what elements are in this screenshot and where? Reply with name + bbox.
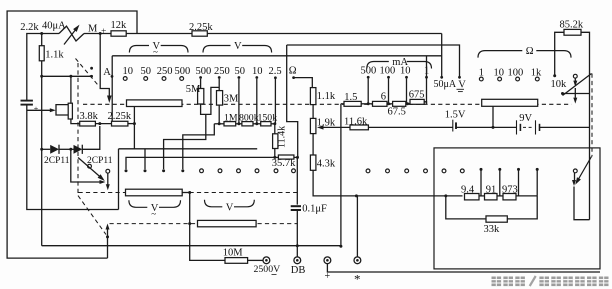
svg-text:2.5: 2.5 [269, 66, 282, 77]
wire V-divider node down to 10M [190, 193, 225, 261]
wiper diagonal [563, 74, 592, 96]
shunt chain wire [341, 103, 344, 105]
terminals ohm ranges (open circles) [479, 77, 483, 81]
node ohm-range tap [492, 126, 495, 129]
resistor R 2.25k (top) [192, 31, 207, 36]
wire 675 to riser [424, 102, 426, 104]
wire 11.4k to 35.7k bus [274, 149, 276, 158]
svg-text:91: 91 [486, 184, 497, 195]
terminal * (common) [354, 257, 361, 264]
wire diode row [59, 148, 74, 150]
svg-text:3.8k: 3.8k [80, 111, 99, 122]
svg-text:500: 500 [361, 66, 377, 77]
contact A on DC bus [111, 75, 114, 78]
svg-text:2CP11: 2CP11 [44, 156, 70, 166]
potentiometer ohm ranges (long box) [482, 99, 538, 106]
contact Omega [292, 76, 295, 79]
capacitor C 0.1uF [296, 157, 298, 204]
switch wiper (dashed) near A [76, 59, 98, 85]
wire top loop [7, 11, 137, 258]
wire rheostat to rectifier row [71, 119, 80, 124]
svg-text:800k: 800k [239, 112, 259, 123]
svg-text:~: ~ [153, 47, 158, 57]
svg-text:10: 10 [123, 66, 134, 77]
wiper assembly top-right: contact circle [573, 74, 577, 78]
svg-text:1.1k: 1.1k [317, 91, 336, 102]
svg-text:*: * [354, 272, 361, 287]
svg-text:9V: 9V [519, 113, 532, 124]
svg-text:1.5V: 1.5V [445, 109, 466, 120]
svg-text:33k: 33k [484, 224, 501, 235]
resistor R 85.2k [564, 29, 581, 35]
resistor R 800k [242, 122, 253, 126]
rotary switch wafer line S1 (dashed, upper) [83, 103, 572, 105]
wire + node 10 [406, 103, 410, 105]
svg-text:50: 50 [141, 66, 152, 77]
svg-text:100: 100 [380, 66, 396, 77]
svg-text:5M: 5M [186, 84, 201, 95]
resistor R 3M [218, 79, 220, 91]
wire D2 to rectifier node [82, 126, 100, 149]
wiper stub arrows [574, 78, 576, 81]
svg-text:11.6k: 11.6k [344, 116, 368, 127]
resistor R 1M [214, 123, 224, 125]
potentiometer V~ divider (long box) [126, 189, 183, 196]
svg-text:10M: 10M [223, 247, 244, 258]
wire common rail y246 [42, 245, 341, 247]
svg-text:50: 50 [235, 66, 246, 77]
resistor R 5M [200, 79, 202, 89]
wire to node [182, 192, 190, 194]
wire to switch contact row [42, 75, 92, 77]
wire DC bus rail [112, 55, 442, 57]
node junction [69, 75, 72, 78]
svg-text:+: + [34, 105, 39, 114]
svg-text:1.5: 1.5 [344, 92, 357, 103]
svg-text:10k: 10k [551, 79, 568, 90]
brace V~ range [129, 46, 149, 53]
resistor R 2.25k (rectifier) [112, 121, 128, 126]
potentiometer R 1.9k [310, 118, 316, 133]
svg-text:+: + [325, 271, 331, 282]
wire [128, 123, 134, 125]
resistor R 3.8k [80, 121, 96, 126]
resistor R 1.1k (meter shunt) [41, 34, 43, 46]
brace Omega ranges [478, 51, 522, 58]
svg-text:0.1μF: 0.1μF [302, 203, 327, 214]
wire shunt left end down to common [340, 104, 342, 247]
svg-text:973: 973 [502, 184, 518, 195]
wire 33k loop [446, 196, 486, 219]
svg-text:100: 100 [508, 68, 524, 79]
wire A branch from M node [100, 34, 109, 98]
svg-text:85.2k: 85.2k [560, 19, 584, 30]
svg-text:67.5: 67.5 [388, 107, 406, 118]
svg-text:12k: 12k [111, 20, 128, 31]
switch S2 wiper [78, 158, 103, 180]
contact row (lower wafer) open circles [200, 169, 204, 173]
svg-text:Ω: Ω [289, 66, 297, 77]
svg-text:9.4: 9.4 [461, 184, 475, 195]
wire stems to resistor row [480, 169, 482, 196]
svg-text:V: V [234, 41, 242, 52]
potentiometer V divider (long box) [198, 220, 257, 226]
wire 1.1k lower / left branch down [41, 61, 43, 246]
wiper pivot wire [563, 93, 590, 95]
wire ohm bus from DC-bus rail corner [287, 45, 298, 157]
wire [456, 126, 517, 128]
brace V~ (bottom) [129, 200, 147, 207]
svg-text:11.4k: 11.4k [277, 126, 288, 148]
wire [95, 123, 111, 125]
resistor R 150k [261, 122, 271, 126]
svg-text:V: V [226, 202, 234, 213]
wire left drop to V~ block [118, 149, 120, 210]
svg-text:500: 500 [196, 66, 212, 77]
wire contact stem to S2 line [107, 173, 109, 185]
wire battery rail [341, 126, 453, 128]
brace V (bottom) [205, 200, 223, 207]
svg-text:6: 6 [381, 92, 386, 103]
wire ohm-range tap stem [492, 106, 494, 127]
wire [312, 134, 314, 155]
svg-text:2500V: 2500V [254, 264, 281, 275]
rotary switch wafer line S2 (dashed, V~ row) [79, 192, 298, 194]
wire contact1 stem and y157 bus [126, 157, 275, 169]
rotary linkage (dashed vertical left) [77, 63, 79, 196]
svg-text:3M: 3M [224, 93, 239, 104]
rotary linkage (dashed diagonal to common node) [78, 196, 106, 235]
watermark [492, 277, 502, 287]
wire 10k riser [555, 32, 564, 75]
node star-terminal stem [355, 194, 358, 197]
switch S2 contacts (bottom-left) [88, 164, 92, 168]
wire battery to right riser [540, 126, 590, 128]
rotary switch wafer line S3 (dashed, V row) [110, 223, 298, 225]
resistor R 4.3k [310, 155, 316, 170]
contact 50uA [440, 76, 443, 79]
meter M (moving-coil galvanometer) [59, 26, 84, 41]
svg-text:1.1k: 1.1k [45, 49, 64, 60]
contact V (DC common) [458, 76, 461, 79]
box bottom-right section [434, 148, 600, 269]
wire 85.2k to right rail [581, 32, 590, 219]
svg-text:Ω: Ω [526, 46, 534, 57]
resistor R 11.6k [350, 125, 368, 130]
terminal + [324, 257, 331, 264]
wire 50uA contact riser [441, 34, 443, 77]
wire 3M down to 1M row [218, 105, 220, 124]
wire 5M to 3M junction [201, 87, 220, 114]
brace V range [203, 46, 231, 53]
contacts V range [199, 76, 202, 79]
node common/mA [339, 245, 342, 248]
capacitor C1 (electrolytic) [21, 100, 33, 102]
node DB riser on rail [296, 244, 299, 247]
svg-text:50μA: 50μA [434, 79, 457, 90]
wire J-hook to wiper [574, 187, 590, 220]
wire contact2 stem [144, 149, 146, 169]
terminal DB [294, 257, 301, 264]
wire 2.2k branch / left vertical with corner [27, 34, 59, 101]
wire + terminal to bottom rail [327, 264, 600, 272]
svg-text:500: 500 [175, 66, 191, 77]
wire y149 bus [119, 148, 258, 150]
contact row (lower wafer) dots [125, 169, 128, 172]
svg-text:10: 10 [400, 66, 411, 77]
resistor R 973 [503, 194, 516, 200]
contact row middle circles [366, 169, 370, 173]
bottom-right wiper diagonal [577, 157, 592, 183]
wire + node [236, 123, 242, 125]
resistor R 9.4 [465, 194, 480, 200]
svg-text:10: 10 [252, 66, 263, 77]
svg-text:250: 250 [157, 66, 173, 77]
terminals V~ (open circles) [123, 77, 127, 81]
resistor R 1.1k (ohm) [310, 88, 316, 105]
diode D1 2CP11 [42, 148, 51, 150]
wire + node [253, 123, 261, 125]
svg-text:+: + [101, 27, 106, 37]
wire meter row [84, 33, 111, 35]
svg-text:2.2k: 2.2k [20, 22, 39, 33]
wire D-branch down to AC switch [71, 149, 103, 182]
svg-text:250: 250 [214, 66, 230, 77]
rotary linkage dashed (right) [591, 74, 593, 157]
bottom-right wiper contact [573, 169, 577, 173]
wire top rail to mA section [207, 33, 441, 35]
svg-text:2.25k: 2.25k [108, 111, 132, 122]
wire + node to 11.4k [271, 123, 275, 125]
diode D2 2CP11 [74, 145, 83, 154]
resistor R 33k [486, 216, 507, 222]
potentiometer AC shunt (long box) [127, 100, 183, 107]
wire [497, 195, 503, 197]
wire tap from 2.25k node down-left [133, 124, 135, 149]
svg-text:4.3k: 4.3k [317, 158, 336, 169]
wire contact4 step [183, 124, 215, 169]
wire mA stems [367, 79, 369, 104]
wire upper rail to V contact [287, 45, 460, 76]
rheostat RP (meter zero adjust) [70, 76, 72, 103]
resistor R 35.7k [278, 155, 294, 159]
resistor R 1.5 [344, 101, 361, 106]
wire star terminal stem [356, 196, 358, 257]
wire DC bus vertical to rectifier node [111, 56, 113, 122]
svg-text:A: A [103, 67, 111, 78]
resistor R 91 [485, 194, 498, 200]
wire below capacitor C1 to bottom [27, 105, 119, 209]
svg-text:675: 675 [409, 90, 425, 101]
svg-text:2.25k: 2.25k [189, 22, 213, 33]
resistor R 10M [225, 258, 248, 264]
wire [516, 195, 537, 197]
node on S3 line [188, 222, 191, 225]
svg-text:~: ~ [151, 209, 156, 219]
brace mA [367, 62, 389, 69]
resistor R 67.5 [393, 101, 406, 106]
wire 10M to 2500V terminal [248, 259, 263, 261]
terminal 2500V [263, 257, 270, 264]
wiper arrow A onto S1 [107, 96, 112, 104]
wire 35.7k to node [294, 156, 298, 158]
node M right [99, 32, 102, 35]
node M left [40, 32, 43, 35]
contacts mA [367, 76, 370, 79]
svg-text:35.7k: 35.7k [272, 158, 296, 169]
resistor R 12k [111, 31, 126, 36]
contact row bottom-right dots [480, 168, 483, 171]
svg-text:DB: DB [291, 265, 306, 276]
wire mA chain right riser [426, 56, 428, 104]
wire Omega contact to 1.1k [294, 78, 313, 88]
node 2.25k right [133, 122, 136, 125]
wire [312, 105, 314, 119]
pot wiper arrow [322, 126, 341, 128]
contact 10k [553, 74, 556, 77]
resistor R 11.4k [274, 124, 276, 134]
resistor R 675 [410, 99, 424, 104]
node 33k left [444, 194, 447, 197]
wire [479, 195, 485, 197]
svg-text:1M: 1M [224, 113, 238, 124]
node rectifier junction [98, 122, 101, 125]
wire contact3 step [164, 114, 206, 169]
wire AC common node area [106, 235, 109, 238]
wire + node 100 [387, 103, 393, 105]
wire 4.3k to common rail [313, 170, 462, 196]
switch contacts A-row [90, 67, 93, 70]
wire taps 50V 10V 2.5V [238, 79, 240, 124]
resistor R 6 [373, 101, 388, 106]
svg-text:150k: 150k [258, 112, 278, 123]
wire [507, 196, 537, 219]
wire + node 500 [361, 103, 372, 105]
